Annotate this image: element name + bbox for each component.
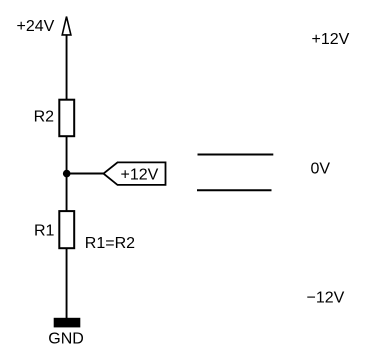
svg-text:+24V: +24V — [17, 18, 55, 35]
svg-text:−12V: −12V — [307, 290, 345, 307]
wire: arrow to R2 — [66, 35, 68, 100]
resistor R2 — [59, 100, 74, 137]
wire: node to R1 — [66, 174, 68, 212]
svg-text:R1: R1 — [34, 223, 55, 240]
svg-text:R1=R2: R1=R2 — [85, 235, 135, 252]
wire: R1 to ground — [66, 248, 68, 318]
0V upper rail line — [198, 154, 274, 156]
svg-text:0V: 0V — [311, 161, 331, 178]
arrow (+24V supply head) — [62, 17, 71, 35]
wire: node to +12V flag — [67, 173, 104, 175]
svg-text:R2: R2 — [34, 108, 55, 125]
node junction dot — [63, 170, 71, 178]
svg-text:+12V: +12V — [121, 167, 159, 184]
svg-text:GND: GND — [48, 331, 84, 348]
svg-text:+12V: +12V — [312, 31, 350, 48]
resistor R1 — [59, 211, 74, 248]
ground bar — [54, 318, 81, 328]
+12V net flag — [104, 162, 166, 185]
wire: R2 to node — [66, 136, 68, 173]
0V lower rail line — [197, 189, 272, 191]
